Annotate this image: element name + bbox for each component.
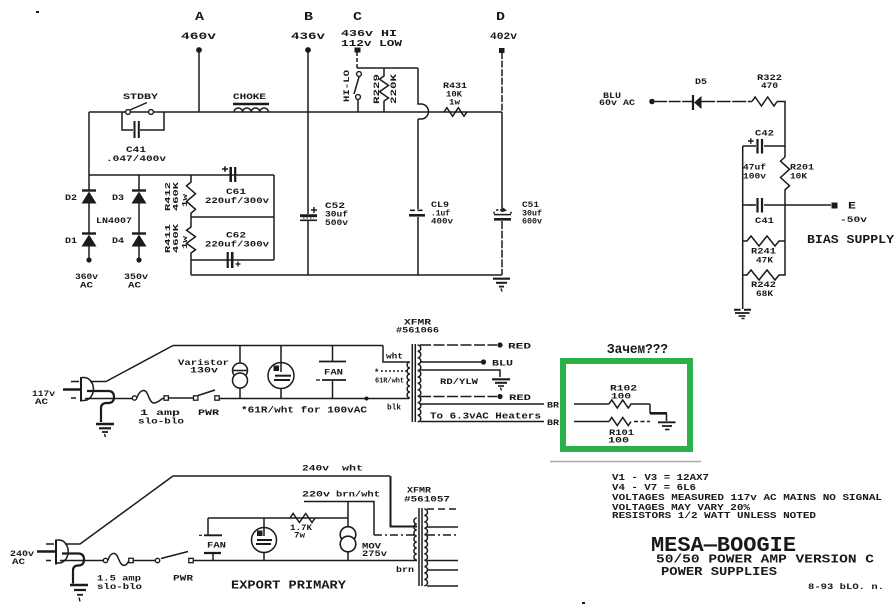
wire MOV drop bbox=[347, 502, 349, 528]
wire neutral to ground bbox=[62, 554, 84, 584]
resistor R241 47K bbox=[743, 236, 785, 246]
svg-text:POWER SUPPLIES: POWER SUPPLIES bbox=[661, 566, 777, 579]
ground green box bbox=[658, 421, 676, 423]
wire drop to ground bus bbox=[190, 260, 192, 275]
svg-text:RD/YLW: RD/YLW bbox=[440, 377, 479, 387]
wire bottom line to fuse bbox=[85, 398, 132, 400]
svg-text:R412: R412 bbox=[165, 181, 173, 211]
wire left drop to rectifier rail bbox=[88, 112, 90, 175]
ground bias bbox=[734, 309, 751, 311]
tap BR heater 1 bbox=[420, 403, 544, 405]
svg-text:#561066: #561066 bbox=[396, 327, 439, 336]
svg-text:D: D bbox=[496, 10, 505, 24]
wire hop over main line bbox=[418, 68, 429, 119]
svg-text:EXPORT PRIMARY: EXPORT PRIMARY bbox=[231, 579, 347, 593]
svg-text:brn: brn bbox=[396, 566, 414, 575]
svg-text:130v: 130v bbox=[190, 367, 218, 376]
wire 220v tap bbox=[304, 502, 374, 536]
tap RED bbox=[420, 344, 497, 346]
plug 240v bbox=[37, 550, 56, 553]
wire rectifier top rail bbox=[89, 174, 274, 176]
resistor 1.7K 7w bbox=[290, 514, 315, 523]
fuse 1.5 amp slo-blo bbox=[103, 558, 107, 562]
wire bias left rail bbox=[742, 146, 744, 309]
svg-text:FAN: FAN bbox=[207, 542, 226, 551]
svg-text:402v: 402v bbox=[490, 32, 517, 43]
svg-text:47uf: 47uf bbox=[743, 164, 766, 173]
svg-text:LN4007: LN4007 bbox=[96, 217, 132, 226]
tap sec 586 bbox=[427, 585, 458, 587]
svg-text:220uf/300v: 220uf/300v bbox=[205, 241, 269, 250]
svg-text:112v LOW: 112v LOW bbox=[341, 38, 402, 49]
wire bbox=[169, 397, 194, 399]
switch PWR bbox=[194, 396, 198, 400]
svg-text:AC: AC bbox=[35, 397, 48, 407]
ground plug117 bbox=[96, 423, 114, 425]
svg-text:To 6.3vAC Heaters: To 6.3vAC Heaters bbox=[430, 412, 541, 422]
svg-text:C42: C42 bbox=[755, 130, 774, 139]
svg-text:RESISTORS 1/2 WATT UNLESS NOTE: RESISTORS 1/2 WATT UNLESS NOTED bbox=[612, 510, 816, 521]
svg-text:#561057: #561057 bbox=[404, 496, 450, 505]
wire bias input bbox=[655, 101, 693, 103]
svg-text:blk: blk bbox=[387, 404, 401, 413]
svg-text:7w: 7w bbox=[294, 532, 305, 541]
svg-text:PWR: PWR bbox=[198, 408, 220, 418]
svg-text:D5: D5 bbox=[695, 78, 707, 87]
svg-text:-50v: -50v bbox=[840, 215, 867, 225]
svg-text:47K: 47K bbox=[756, 257, 773, 266]
wire HI-LO top bridge bbox=[357, 67, 418, 69]
svg-text:wht: wht bbox=[386, 353, 403, 362]
svg-text:220v: 220v bbox=[302, 490, 330, 500]
svg-text:RED: RED bbox=[508, 342, 531, 352]
wire wht drop bbox=[391, 476, 418, 527]
svg-text:460v: 460v bbox=[181, 32, 216, 43]
svg-text:BR: BR bbox=[547, 419, 559, 428]
switch PWR (240v) bbox=[155, 558, 159, 562]
wire bottom rail of box bbox=[191, 259, 274, 261]
svg-text:AC: AC bbox=[80, 281, 93, 291]
svg-text:D4: D4 bbox=[112, 237, 124, 246]
svg-text:D3: D3 bbox=[112, 194, 124, 203]
wire node C drop bbox=[356, 52, 358, 68]
svg-text:68K: 68K bbox=[756, 290, 773, 299]
wire top rail 240v bbox=[173, 475, 390, 477]
svg-text:XFMR: XFMR bbox=[407, 487, 431, 496]
svg-text:D2: D2 bbox=[65, 194, 77, 203]
annotation green box bbox=[563, 361, 690, 449]
svg-text:R242: R242 bbox=[751, 281, 776, 290]
capacitor C51 30uf 600v bbox=[496, 209, 502, 211]
speck bottom bbox=[582, 602, 585, 604]
svg-text:100: 100 bbox=[611, 393, 631, 402]
svg-text:460K: 460K bbox=[173, 223, 181, 253]
wire top rail bbox=[173, 345, 383, 347]
wire lower rail bbox=[219, 398, 409, 400]
svg-text:slo-blo: slo-blo bbox=[97, 582, 142, 592]
capacitor C62 220uf/300v bbox=[227, 252, 229, 268]
svg-text:wht: wht bbox=[342, 464, 363, 474]
wire neutral to ground bbox=[87, 391, 114, 422]
tap RD/YLW to ground bbox=[420, 370, 500, 377]
wire node B column bbox=[307, 52, 309, 214]
capacitor C52 30uf 500v bbox=[311, 207, 317, 213]
ground RD/YLW bbox=[492, 378, 510, 380]
capacitor CL9 .1uf 400v bbox=[410, 209, 425, 211]
svg-text:400v: 400v bbox=[431, 218, 453, 227]
wire middle rail bbox=[191, 216, 274, 218]
svg-text:R241: R241 bbox=[751, 248, 776, 257]
fan motor 240 bbox=[263, 518, 265, 536]
svg-text:B: B bbox=[304, 10, 313, 24]
svg-text:100: 100 bbox=[608, 437, 629, 446]
svg-text:220K: 220K bbox=[390, 74, 399, 104]
svg-text:AC: AC bbox=[12, 557, 25, 567]
svg-text:E: E bbox=[848, 202, 856, 213]
svg-text:BIAS SUPPLY: BIAS SUPPLY bbox=[807, 233, 895, 247]
tap BLU bbox=[420, 361, 481, 363]
svg-text:Зачем???: Зачем??? bbox=[607, 342, 668, 358]
ground plug240 bbox=[70, 584, 88, 586]
svg-text:8-93 bLO. n.: 8-93 bLO. n. bbox=[808, 582, 884, 592]
wire bbox=[134, 560, 156, 562]
svg-text:FAN: FAN bbox=[324, 369, 343, 378]
svg-text:C62: C62 bbox=[226, 232, 246, 241]
wire node D column bbox=[501, 52, 503, 112]
svg-text:R411: R411 bbox=[165, 223, 173, 253]
svg-text:50/50 POWER AMP VERSION C: 50/50 POWER AMP VERSION C bbox=[656, 554, 874, 567]
wire fan branch bbox=[208, 517, 348, 519]
svg-text:HI-LO: HI-LO bbox=[343, 70, 352, 102]
fuse 1 amp slo-blo bbox=[132, 396, 136, 400]
svg-text:A: A bbox=[195, 10, 205, 24]
svg-text:C: C bbox=[353, 10, 362, 24]
svg-text:AC: AC bbox=[128, 281, 141, 291]
tap sec dashed bbox=[427, 508, 458, 510]
tap sec solid bbox=[427, 526, 458, 528]
svg-text:61R/wht: 61R/wht bbox=[375, 378, 404, 386]
capacitor C41 (bias) bbox=[743, 204, 785, 206]
wire hot lead + diagonal bbox=[90, 346, 173, 382]
wire node A drop bbox=[198, 52, 200, 112]
capacitor FAN240 bbox=[204, 534, 222, 536]
resistor R201 10K bbox=[781, 157, 790, 241]
svg-text:*: * bbox=[374, 368, 379, 378]
plug 117v bbox=[63, 388, 81, 391]
wire wht drop bbox=[383, 346, 409, 363]
wire main B+ line bbox=[89, 111, 502, 113]
wire down right rail bbox=[777, 102, 785, 158]
wire right edge of filter box bbox=[273, 175, 275, 260]
svg-text:460K: 460K bbox=[173, 181, 181, 211]
svg-text:STDBY: STDBY bbox=[123, 92, 159, 102]
svg-text:PWR: PWR bbox=[173, 574, 194, 584]
wire ground bus bbox=[191, 274, 502, 276]
wire R102 row bbox=[574, 403, 609, 405]
svg-text:brn/wht: brn/wht bbox=[336, 490, 380, 500]
svg-text:BR: BR bbox=[547, 402, 559, 411]
node junction bbox=[365, 397, 369, 401]
svg-text:275v: 275v bbox=[362, 550, 387, 559]
svg-text:D1: D1 bbox=[65, 237, 77, 246]
svg-text:slo-blo: slo-blo bbox=[138, 417, 184, 427]
svg-text:500v: 500v bbox=[325, 219, 348, 228]
tap RED 2 bbox=[420, 396, 497, 398]
wire common drop bbox=[649, 404, 651, 414]
faint separator line bbox=[550, 461, 701, 463]
svg-text:220uf/300v: 220uf/300v bbox=[205, 197, 269, 206]
tap sec dashdot bbox=[427, 534, 458, 536]
tap sec brn level bbox=[427, 560, 458, 562]
svg-text:R201: R201 bbox=[790, 164, 814, 173]
node 350v AC terminal bbox=[136, 257, 141, 262]
svg-text:240v: 240v bbox=[302, 464, 329, 474]
svg-text:C61: C61 bbox=[226, 188, 246, 197]
capacitor FAN bbox=[332, 346, 334, 362]
svg-text:60v AC: 60v AC bbox=[599, 99, 635, 108]
varistor MOV 275v bbox=[340, 527, 356, 543]
svg-text:436v: 436v bbox=[291, 32, 325, 43]
wire R101 row bbox=[574, 421, 609, 423]
speck top-left bbox=[36, 11, 39, 13]
svg-text:RED: RED bbox=[509, 393, 531, 403]
capacitor C61 220uf/300v bbox=[222, 166, 228, 172]
resistor R101 100 bbox=[609, 418, 631, 426]
svg-text:600v: 600v bbox=[522, 218, 542, 227]
resistor R242 68K bbox=[743, 241, 785, 280]
wire bbox=[701, 101, 752, 103]
wire bottom rail to fuse bbox=[60, 560, 103, 562]
svg-text:1w: 1w bbox=[449, 99, 460, 108]
svg-text:C41: C41 bbox=[126, 146, 146, 155]
svg-text:100v: 100v bbox=[743, 173, 766, 182]
fan motor symbol bbox=[280, 346, 282, 373]
ground main bbox=[493, 278, 510, 280]
svg-text:.047/400v: .047/400v bbox=[106, 155, 166, 164]
wire hot + diagonal bbox=[65, 476, 173, 544]
tap sec 570 bbox=[427, 569, 458, 571]
svg-text:10K: 10K bbox=[790, 173, 807, 182]
svg-text:*61R/wht for 100vAC: *61R/wht for 100vAC bbox=[241, 406, 368, 416]
capacitor C41 (stdby bypass) bbox=[122, 112, 164, 130]
svg-text:BLU: BLU bbox=[492, 359, 513, 369]
svg-text:C41: C41 bbox=[755, 217, 774, 226]
svg-text:CHOKE: CHOKE bbox=[233, 92, 266, 102]
tap BR heater 2 bbox=[420, 421, 544, 423]
wire E output bbox=[785, 204, 831, 206]
svg-text:470: 470 bbox=[761, 82, 778, 91]
wire lower rail bbox=[194, 560, 418, 562]
node 360v AC terminal bbox=[86, 257, 91, 262]
